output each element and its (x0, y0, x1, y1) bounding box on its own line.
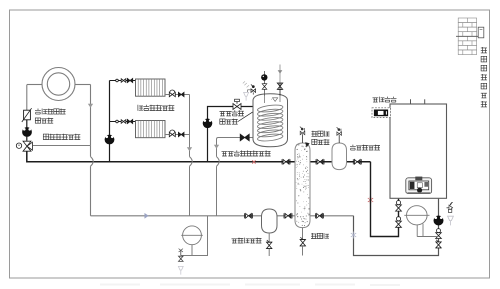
flow arrow on direct return (187, 147, 192, 151)
wire valve to coil return (33, 145, 91, 147)
service valves on boiler supply (396, 201, 400, 205)
filter drain valve (268, 233, 270, 242)
label sensor type (35, 109, 41, 115)
wire DHW return (217, 138, 254, 157)
label air separator (350, 145, 356, 151)
radiator R2 (136, 121, 166, 138)
union valve right of decoupler top (315, 159, 317, 164)
wire supply header (27, 152, 371, 162)
red frost mark on boiler supply (368, 197, 373, 204)
expansion vessel EV1 (183, 226, 202, 245)
boiler flue stubs (410, 99, 412, 104)
floor heating coil circle (42, 68, 75, 101)
valves on radiator 2 return (169, 132, 172, 136)
pump P4 boiler circuit (434, 216, 443, 225)
expansion vessel at boiler (407, 206, 428, 225)
magnetic filter F1 (262, 209, 278, 233)
flow arrow on DHW return (214, 145, 219, 149)
union valve left of filter (244, 213, 246, 218)
label DHW recirculation loop (222, 152, 228, 156)
pump P1 mixing circuit (23, 128, 32, 137)
wire coil return top (75, 84, 91, 86)
wire direct supply riser (109, 81, 111, 136)
wire coil supply (27, 84, 42, 86)
union valve left of decoupler top (281, 159, 283, 164)
pump P2 direct circuit (105, 135, 114, 144)
union valve right of filter (283, 213, 285, 218)
boiler control panel (406, 178, 432, 194)
immersion temperature sensor TS1 (24, 110, 31, 120)
hot water outlet tap with tundish (252, 85, 255, 88)
union valve right of air separator (352, 159, 354, 164)
flow arrow on return header (145, 213, 149, 218)
wire DHW supply riser (208, 107, 254, 162)
expansion module box (372, 108, 390, 118)
flow arrow on coil return (88, 104, 93, 108)
pipe hop direct return over header (190, 157, 193, 167)
decoupler temperature sensor (302, 134, 304, 143)
wire boiler supply down-leg (371, 162, 399, 237)
label magnetic filter (232, 239, 238, 243)
wire mixing riser (26, 85, 28, 111)
union valve right of decoupler bottom (315, 213, 317, 218)
sensor leader line (238, 111, 255, 122)
air vent on separator top (338, 135, 340, 143)
DHW tank with internal coil (253, 94, 288, 147)
red service cross mark on header (252, 160, 255, 163)
valve pair on branch 1 (116, 79, 119, 82)
cold water inlet with valve (279, 65, 281, 84)
faint ghost caption below frame (100, 284, 400, 287)
wire return header (91, 215, 354, 217)
label DHW sensor (220, 112, 226, 116)
brick wall (458, 18, 476, 23)
tank water level mark (273, 98, 278, 102)
decoupler drain valve (302, 228, 304, 239)
wall-hung boiler B1 (390, 104, 447, 198)
valve pair on branch 2 (116, 120, 119, 123)
label expansion module (373, 98, 379, 102)
valves on radiator 1 return (169, 92, 172, 96)
wire direct return drop (189, 95, 191, 157)
outdoor sensor box on wall (456, 35, 478, 37)
decoupling tank (hydraulic separator) (295, 143, 310, 228)
label mixing loop (43, 134, 48, 139)
tank heating coil (257, 104, 283, 113)
pipe hop DHW return over header (217, 157, 220, 167)
label decoupler sensor (312, 131, 318, 137)
label decoupler (311, 233, 317, 239)
radiator R1 (136, 79, 166, 96)
valves below boiler pump (437, 229, 441, 233)
wire radiator 2 return branch (165, 134, 190, 136)
pipe hop over header (91, 157, 94, 167)
wire radiator 1 supply branch (110, 80, 136, 82)
thermometer ball on tank top pipe (264, 71, 266, 96)
label outdoor temperature sensor (vertical) (481, 47, 487, 53)
wire radiator 2 supply branch (110, 121, 136, 123)
boiler safety valve and tundish (447, 207, 450, 209)
micro-bubble air separator vessel (332, 143, 347, 170)
fill valve at vessel drain (180, 251, 182, 256)
wire coil return drop (90, 85, 92, 146)
shut-off valve on DHW return (240, 134, 245, 141)
wire boiler return leg (354, 199, 439, 256)
faint drain symbol below (178, 266, 183, 274)
wire expansion vessel connection (181, 216, 208, 256)
wire radiator 1 return branch (165, 94, 190, 96)
pump P3 DHW circuit (203, 119, 212, 128)
motorized valve on DHW supply (233, 104, 237, 110)
three-way mixing valve V1 with actuator M (23, 141, 31, 146)
grey frost mark on return corner (351, 232, 356, 239)
label direct loop (138, 105, 143, 111)
